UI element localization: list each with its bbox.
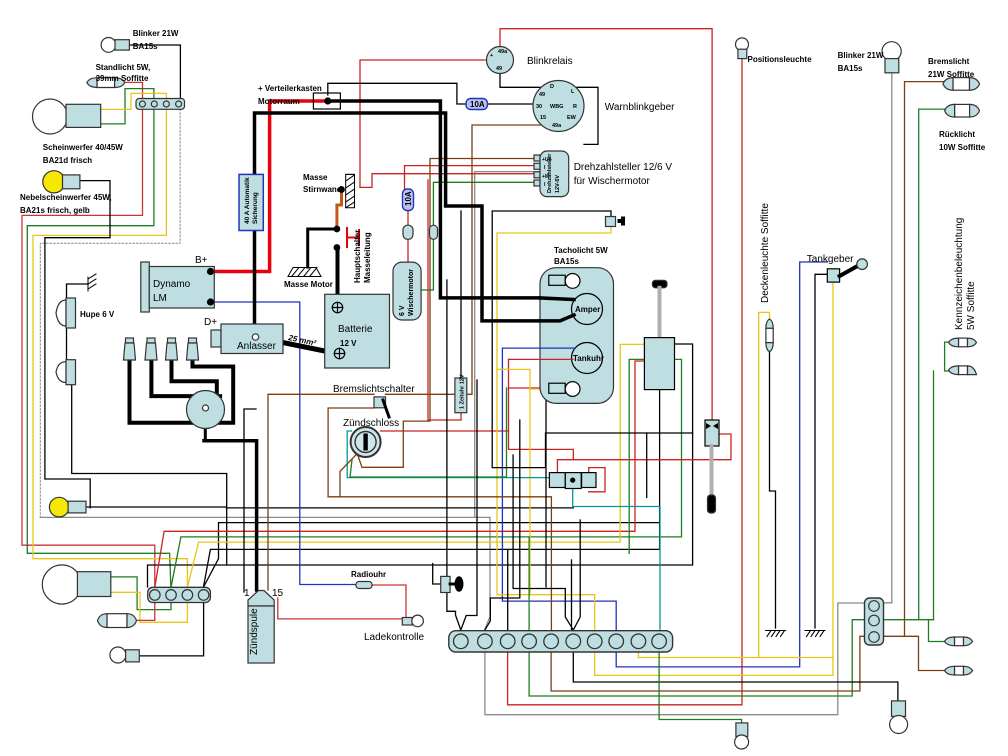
motor 6V Wischermotor bbox=[393, 262, 421, 320]
node anlasser terminal bbox=[252, 334, 258, 340]
lamp Bremslicht festoon bbox=[943, 78, 980, 91]
wire thick black sparkplug1 and 4 loop lead bbox=[130, 358, 234, 423]
svg-text:B+: B+ bbox=[195, 255, 208, 266]
svg-text:Positionsleuchte: Positionsleuchte bbox=[748, 55, 813, 64]
svg-text:5W Soffitte: 5W Soffitte bbox=[966, 281, 977, 330]
wire black long row y507 bbox=[226, 507, 573, 509]
svg-text:Kennzeichenbeleuchtung: Kennzeichenbeleuchtung bbox=[954, 218, 965, 330]
svg-text:WBG: WBG bbox=[550, 104, 563, 110]
node dynamo D+ bbox=[207, 298, 214, 305]
svg-text:Zündspule: Zündspule bbox=[249, 608, 260, 655]
sender Tankgeber bbox=[827, 269, 839, 282]
svg-text:Warnblinkgeber: Warnblinkgeber bbox=[605, 102, 675, 113]
wire red festoon2 to lower connector hole1 under bbox=[134, 600, 155, 620]
wire black tacho indicator down to fusebox funnel bbox=[546, 280, 549, 587]
wire red tankuhr overlay bbox=[540, 358, 573, 360]
svg-text:Motorraum: Motorraum bbox=[258, 97, 300, 106]
battery Batterie 12V bbox=[325, 294, 390, 368]
wire gray from Blinker-right bulb down to rear connector hole1 bbox=[880, 73, 892, 603]
wire orange masse stirnwand link bbox=[337, 191, 342, 229]
connector capsule A bbox=[403, 225, 413, 239]
svg-text:Anlasser: Anlasser bbox=[237, 341, 277, 352]
wire red blinkrelais top loop right side down to wiper switch bbox=[500, 29, 712, 420]
wire gray stub warnblinkgeber area bbox=[475, 172, 540, 518]
ignition coil Zuendspule bbox=[248, 591, 274, 607]
svg-text:49: 49 bbox=[539, 92, 545, 98]
node masse stirnwand dot bbox=[338, 186, 345, 193]
plug connector with male plug bbox=[606, 217, 616, 227]
wire black funnel into fusebox hole2 bbox=[485, 420, 520, 630]
ground horn hatch bbox=[88, 274, 96, 291]
controller Drehzahlsteller bbox=[534, 155, 540, 161]
node main switch dots bbox=[334, 226, 341, 233]
svg-text:Masseleitung: Masseleitung bbox=[363, 232, 372, 283]
wire black horn link bbox=[66, 328, 68, 361]
wire black row y522 diagonal to lower connector hole4 bbox=[203, 523, 659, 588]
wiper switch with stalk bbox=[705, 420, 719, 446]
lamp Kennzeichen festoon 2 bbox=[949, 366, 977, 375]
wire thick black distributor to ignition coil bbox=[204, 412, 207, 441]
wire thick red dynamo B+ to junction box bbox=[212, 101, 325, 272]
svg-text:Deckenleuchte Soffitte: Deckenleuchte Soffitte bbox=[760, 203, 771, 303]
svg-text:+M: +M bbox=[542, 174, 549, 180]
svg-text:Blinker 21W: Blinker 21W bbox=[133, 29, 179, 38]
wire black horn ground bbox=[67, 284, 89, 300]
wire teal zuendschloss to dimmer switch bbox=[347, 431, 565, 478]
connector capsule B bbox=[430, 225, 438, 239]
svg-text:Batterie: Batterie bbox=[338, 324, 373, 335]
wire red fuse to capsule to wischermotor bbox=[407, 209, 409, 226]
svg-text:21W Soffitte: 21W Soffitte bbox=[928, 70, 975, 79]
wire red B+ to Zuendschloss area: blinkrelais feed bbox=[360, 60, 540, 187]
wire black row to lower connector hole4 diagonal bbox=[203, 390, 659, 587]
wire brown zuendschloss V leg down bbox=[340, 451, 360, 497]
wire red tankuhr row bbox=[509, 358, 572, 360]
wire green bundle row y536 diag to lower connector hole2, up right of column switch bbox=[171, 359, 682, 587]
wire red dimmer right C loop bbox=[589, 468, 605, 492]
wire green headlight to hole2 to left bundle to lower connector hole2 bbox=[27, 89, 171, 590]
svg-text:30: 30 bbox=[536, 104, 542, 110]
svg-text:Wischermotor: Wischermotor bbox=[408, 269, 415, 316]
svg-text:1: 1 bbox=[244, 588, 250, 599]
lamp Scheinwerfer headlight 1 bbox=[33, 99, 68, 134]
wire thick black sparkplug3 lead bbox=[172, 358, 217, 392]
ground bottom hatch 2 bbox=[805, 631, 825, 637]
wire yellow tacho bottom lamp bbox=[497, 369, 549, 389]
svg-text:Blinker 21W: Blinker 21W bbox=[838, 51, 884, 60]
fuse 40A Automatik Sicherung bbox=[239, 174, 263, 230]
connector strip front 4-pole bbox=[136, 99, 185, 110]
svg-text:Hupe 6 V: Hupe 6 V bbox=[80, 310, 115, 319]
wire brown bremslichtschalter to ignition coil 15 bbox=[268, 394, 374, 590]
wire black plug wire row211 bbox=[492, 211, 692, 468]
wire red zuendschloss row y431 bbox=[381, 430, 509, 432]
wire green ruecklicht festoon down bbox=[919, 109, 947, 620]
svg-text:Stirnwand: Stirnwand bbox=[303, 185, 342, 194]
radiouhr capsule bbox=[356, 582, 372, 589]
wire red zuendschloss up loop to dimmer bbox=[509, 359, 574, 459]
wire brown bremslicht festoon down to rear connector hole3 bbox=[905, 82, 946, 637]
cigarette lighter bbox=[441, 576, 450, 592]
wire green fuse hole4 under to rear connector hole2 bbox=[529, 620, 869, 696]
wire black 10A fuse to warnblinkgeber bbox=[487, 103, 534, 105]
ground Masse Motor hatch bbox=[288, 268, 321, 277]
starter Anlasser bbox=[211, 330, 221, 347]
wire black yellow-bulb to collector bbox=[86, 506, 226, 508]
wire red wiper switch right loop to long row y459 bbox=[557, 434, 731, 473]
wire red zeituhr box down left up bbox=[428, 180, 461, 420]
svg-text:49: 49 bbox=[496, 66, 502, 72]
svg-text:Ladekontrolle: Ladekontrolle bbox=[364, 632, 424, 643]
labels inside blinkrelais bbox=[490, 49, 508, 72]
svg-text:Sicherung: Sicherung bbox=[252, 192, 259, 224]
wire yellow plug connector to fuse hole7 bbox=[497, 226, 611, 633]
switch Bremslichtschalter bbox=[374, 397, 386, 408]
wire black Blinker-left to connector hole4 bbox=[129, 45, 180, 100]
wire red coil 15 to Ladekontrolle bbox=[278, 598, 402, 619]
wire red radiouhr to Ladekontrolle bbox=[372, 585, 406, 618]
wire green zuendschloss row y477 bbox=[350, 388, 507, 477]
wire red drehzahlsteller pin to 10A fuse wischermotor bbox=[405, 166, 541, 191]
svg-text:39mm Soffitte: 39mm Soffitte bbox=[96, 74, 149, 83]
svg-text:Dynamo: Dynamo bbox=[153, 279, 191, 290]
wire black junction box up loop to 10A fuse bbox=[328, 83, 467, 104]
wire blue tankgeber down to fuse hole8 under bbox=[616, 262, 827, 667]
labels inside warnblinkgeber bbox=[536, 84, 577, 129]
ground bottom hatch 1 bbox=[766, 631, 786, 637]
junction box Verteilerkasten bbox=[313, 93, 340, 109]
wire red hauptschalter symbol bbox=[346, 228, 348, 247]
wire red bundle row y531 diag to lower connector hole1, up to column switch bbox=[155, 361, 645, 587]
wire brown bremslichtschalter lower loop to fuse hole5 row bbox=[328, 408, 374, 497]
wire brown drehzahlsteller pin down to bremslichtschalter bbox=[357, 159, 540, 468]
svg-text:Amper: Amper bbox=[575, 305, 600, 314]
wire yellow bundle row y542 diag to lower connector hole3, up to column switch left bbox=[187, 344, 644, 587]
svg-text:Masse: Masse bbox=[303, 173, 328, 182]
wire thick black battery minus cable 25mm to anlasser bbox=[256, 337, 338, 354]
svg-text:Masse Motor: Masse Motor bbox=[284, 280, 333, 289]
svg-text:Zündschloss: Zündschloss bbox=[343, 418, 399, 429]
svg-text:BA15s: BA15s bbox=[838, 64, 863, 73]
wire brown fuse hole5 under to rear connector hole3 bbox=[551, 636, 869, 691]
wire black Nebelscheinwerfer to left black vertical bbox=[45, 181, 110, 508]
connector strip rear-left 4 holes bbox=[148, 587, 211, 602]
wire black fuse hole6 under to tail bulb right bbox=[573, 650, 898, 701]
svg-text:+ Verteilerkasten: + Verteilerkasten bbox=[258, 84, 322, 93]
svg-text:Hauptschalter: Hauptschalter bbox=[353, 230, 362, 283]
svg-text:+Ub: +Ub bbox=[542, 157, 552, 163]
svg-text:1 Zeituhr 12V: 1 Zeituhr 12V bbox=[460, 374, 466, 409]
svg-text:Rücklicht: Rücklicht bbox=[939, 130, 975, 139]
svg-text:Radiouhr: Radiouhr bbox=[351, 570, 386, 579]
meter Tankuhr bbox=[572, 343, 603, 374]
wire green headlight2 to lower connector hole2 under bbox=[111, 577, 171, 610]
lamp Schlussleuchte right bbox=[892, 701, 906, 717]
fuse 10A top bbox=[466, 99, 488, 110]
meter Amper bbox=[572, 294, 603, 325]
wire yellow tacho down join hole7 row bbox=[529, 389, 531, 595]
wire green fuse hole10 under to tail bulb left bbox=[659, 650, 742, 723]
wire black row y565 from collector to column switch right bbox=[148, 344, 693, 587]
wire thick black sparkplug2 lead bbox=[151, 358, 220, 396]
svg-text:Nebelscheinwerfer 45W,: Nebelscheinwerfer 45W, bbox=[20, 193, 112, 202]
wire yellow tankgeber down to fuse hole7 under bbox=[595, 282, 833, 675]
column switch knob and stalk bbox=[652, 280, 667, 288]
wire green kennzeichen festoons joined down bbox=[945, 342, 951, 371]
horn body2 bbox=[56, 360, 76, 385]
lamp small yellow rear bbox=[49, 497, 69, 517]
wire blue dynamo D+ to radiouhr bbox=[213, 302, 356, 585]
svg-text:12 V: 12 V bbox=[340, 339, 357, 348]
ground Masse Stirnwand hatch bbox=[346, 174, 355, 207]
lamp Deckenleuchte festoon vertical bbox=[766, 319, 773, 352]
wire green drehzahlsteller pin to wischermotor bbox=[421, 182, 540, 290]
node junction box dot bbox=[324, 97, 331, 104]
lamp rear festoon bbox=[98, 614, 137, 628]
distributor Zuendverteiler bbox=[187, 391, 225, 429]
svg-text:49a: 49a bbox=[552, 123, 562, 129]
wire black coil terminal 1 branch bbox=[244, 409, 256, 592]
wire brown warnblinkgeber 15 to bremslichtschalter right bbox=[386, 125, 548, 394]
svg-text:10W Soffitte: 10W Soffitte bbox=[939, 143, 986, 152]
lamp bottom right festoon 1 bbox=[945, 637, 973, 646]
wire black horn down to collector and lower connector bbox=[72, 383, 227, 566]
wire gray long: left to funnel hole2 of fusebox, below to rear connector hole1 bbox=[40, 517, 869, 714]
wire brown rear connector hole3 right to bottom right festoon bbox=[880, 636, 947, 670]
svg-text:10A: 10A bbox=[404, 191, 413, 206]
svg-text:6 V: 6 V bbox=[399, 305, 406, 316]
wire yellow fuse hole9 to deckenleuchte bbox=[638, 650, 833, 658]
lamp Nebelscheinwerfer yellow bbox=[43, 171, 65, 193]
fuse 10A wischermotor bbox=[403, 189, 414, 211]
wire black short into fuse hole3 bbox=[507, 549, 509, 633]
fuse box main strip 10 holes bbox=[449, 631, 673, 652]
svg-text:R: R bbox=[573, 104, 577, 110]
svg-text:Bremslichtschalter: Bremslichtschalter bbox=[333, 384, 415, 395]
wire dotted spare from hole4 down left side bbox=[40, 109, 180, 517]
instrument cluster Tacho bbox=[540, 268, 614, 404]
svg-text:Scheinwerfer 40/45W: Scheinwerfer 40/45W bbox=[43, 143, 123, 152]
sparkplugs x4 bbox=[124, 338, 199, 360]
relay Blinkrelais bbox=[487, 47, 514, 74]
lamp Ladekontrolle bbox=[402, 618, 412, 626]
timer Zeituhr box bbox=[455, 378, 467, 413]
svg-text:für Wischermotor: für Wischermotor bbox=[574, 176, 651, 187]
lamp Positionsleuchte bbox=[736, 38, 749, 51]
svg-text:Tankgeber: Tankgeber bbox=[807, 254, 854, 265]
wire red positionsleuchte long down to fuse hole3 bbox=[508, 59, 742, 705]
svg-text:BA15s: BA15s bbox=[554, 257, 579, 266]
wire green column switch left down to bundle y553 bbox=[629, 359, 644, 553]
lamp Blinker right rear bbox=[882, 42, 901, 61]
wire blue tankuhr overlay bbox=[540, 347, 575, 349]
wire yellow headlight to hole3 to left bundle to lower connector hole3 bbox=[33, 93, 187, 590]
battery plus terminal bbox=[332, 302, 342, 312]
dynamo LM bbox=[141, 262, 150, 312]
wire black warnblinkgeber loop bbox=[500, 73, 598, 144]
svg-text:+: + bbox=[490, 53, 493, 59]
svg-text:12V-6V: 12V-6V bbox=[555, 175, 561, 193]
lamp Ruecklicht festoon bbox=[945, 104, 980, 117]
wire thick black amper upper overlay bbox=[540, 298, 574, 300]
wire green short into fuse hole4 bbox=[528, 537, 530, 633]
svg-text:Tacholicht 5W: Tacholicht 5W bbox=[554, 246, 608, 255]
WIRE-OVERLAYS on cluster bbox=[540, 298, 575, 360]
svg-text:D+: D+ bbox=[204, 317, 217, 328]
lamp Schlussleuchte left bbox=[736, 723, 748, 737]
lamp Blinker 21W front-left bbox=[101, 38, 116, 53]
wire thick black bus1 junction to amper bbox=[328, 101, 572, 298]
lamp Kennzeichen festoon 1 bbox=[949, 338, 977, 347]
lamp rear big bulb left bbox=[42, 565, 81, 604]
svg-text:Tankuhr: Tankuhr bbox=[573, 354, 604, 363]
svg-text:D: D bbox=[550, 84, 554, 90]
wire brown zuendschloss branch to fuse hole5 bbox=[328, 497, 551, 633]
wire red Standlicht festoon to hole1 to left bundle to lower connector hole1 bbox=[22, 82, 155, 590]
svg-text:Standlicht 5W,: Standlicht 5W, bbox=[96, 63, 151, 72]
WIRES-THICK bbox=[130, 101, 573, 590]
svg-text:BA21d frisch: BA21d frisch bbox=[43, 156, 92, 165]
svg-text:Blinkrelais: Blinkrelais bbox=[527, 56, 573, 67]
svg-text:BA21s frisch, gelb: BA21s frisch, gelb bbox=[20, 206, 90, 215]
svg-text:Bremslicht: Bremslicht bbox=[928, 57, 970, 66]
wire black funnel into fusebox hole1 a bbox=[447, 280, 461, 630]
wire yellow headlight2 to lower connector hole3 under bbox=[111, 592, 187, 622]
wire teal dimmer down to fuse hole10 bbox=[573, 489, 660, 634]
lamp small rear bulb bbox=[110, 647, 126, 663]
wire black branch y433 down bbox=[646, 433, 648, 497]
svg-text:40 A Automatik: 40 A Automatik bbox=[244, 177, 251, 224]
battery minus terminal bbox=[334, 348, 344, 358]
svg-text:10A: 10A bbox=[470, 100, 485, 109]
wire blue tankuhr to fuse hole8 bbox=[502, 348, 616, 633]
wire black masse motor from switch dot bbox=[308, 229, 337, 267]
wire black verticals into fusebox hole6 bbox=[513, 455, 573, 630]
svg-text:Drehzahlsteller 12/6 V: Drehzahlsteller 12/6 V bbox=[574, 162, 673, 173]
lamp bottom right festoon 2 bbox=[945, 666, 973, 675]
wire yellow deckenleuchte up bbox=[759, 312, 770, 657]
lamp Standlicht festoon front bbox=[87, 78, 125, 88]
svg-text:BA15s: BA15s bbox=[133, 42, 158, 51]
svg-text:LM: LM bbox=[153, 293, 167, 304]
wire black tankgeber ground bbox=[815, 274, 827, 628]
svg-text:EW: EW bbox=[567, 115, 577, 121]
node dynamo B+ bbox=[207, 268, 214, 275]
horn Hupe 6V body1 bbox=[56, 298, 76, 328]
relay Warnblinkgeber bbox=[533, 81, 584, 132]
wire thick black battery plus to switch bbox=[336, 248, 340, 303]
wire black small bulb to lower connector hole4 under bbox=[139, 600, 203, 656]
svg-text:15: 15 bbox=[272, 588, 284, 599]
connector rear 3 holes bbox=[865, 598, 884, 645]
wire thick black bus2 anlasser to amper bbox=[255, 113, 573, 337]
svg-text:49a: 49a bbox=[498, 49, 508, 55]
wire green rear connector hole2 row to bottom festoon bbox=[880, 619, 934, 621]
wire black funnel into fusebox hole1 b bbox=[461, 380, 477, 630]
wire black deckenleuchte ground bbox=[770, 352, 776, 628]
dimmer switch group bbox=[549, 473, 565, 488]
svg-text:15: 15 bbox=[540, 115, 546, 121]
wire black cigarette lighter to row y563 bbox=[433, 564, 441, 585]
lock Zuendschloss bbox=[351, 427, 381, 457]
wire thick black amper lower overlay bbox=[540, 315, 574, 321]
wire black zeituhr box feed from row211 bbox=[460, 211, 462, 378]
